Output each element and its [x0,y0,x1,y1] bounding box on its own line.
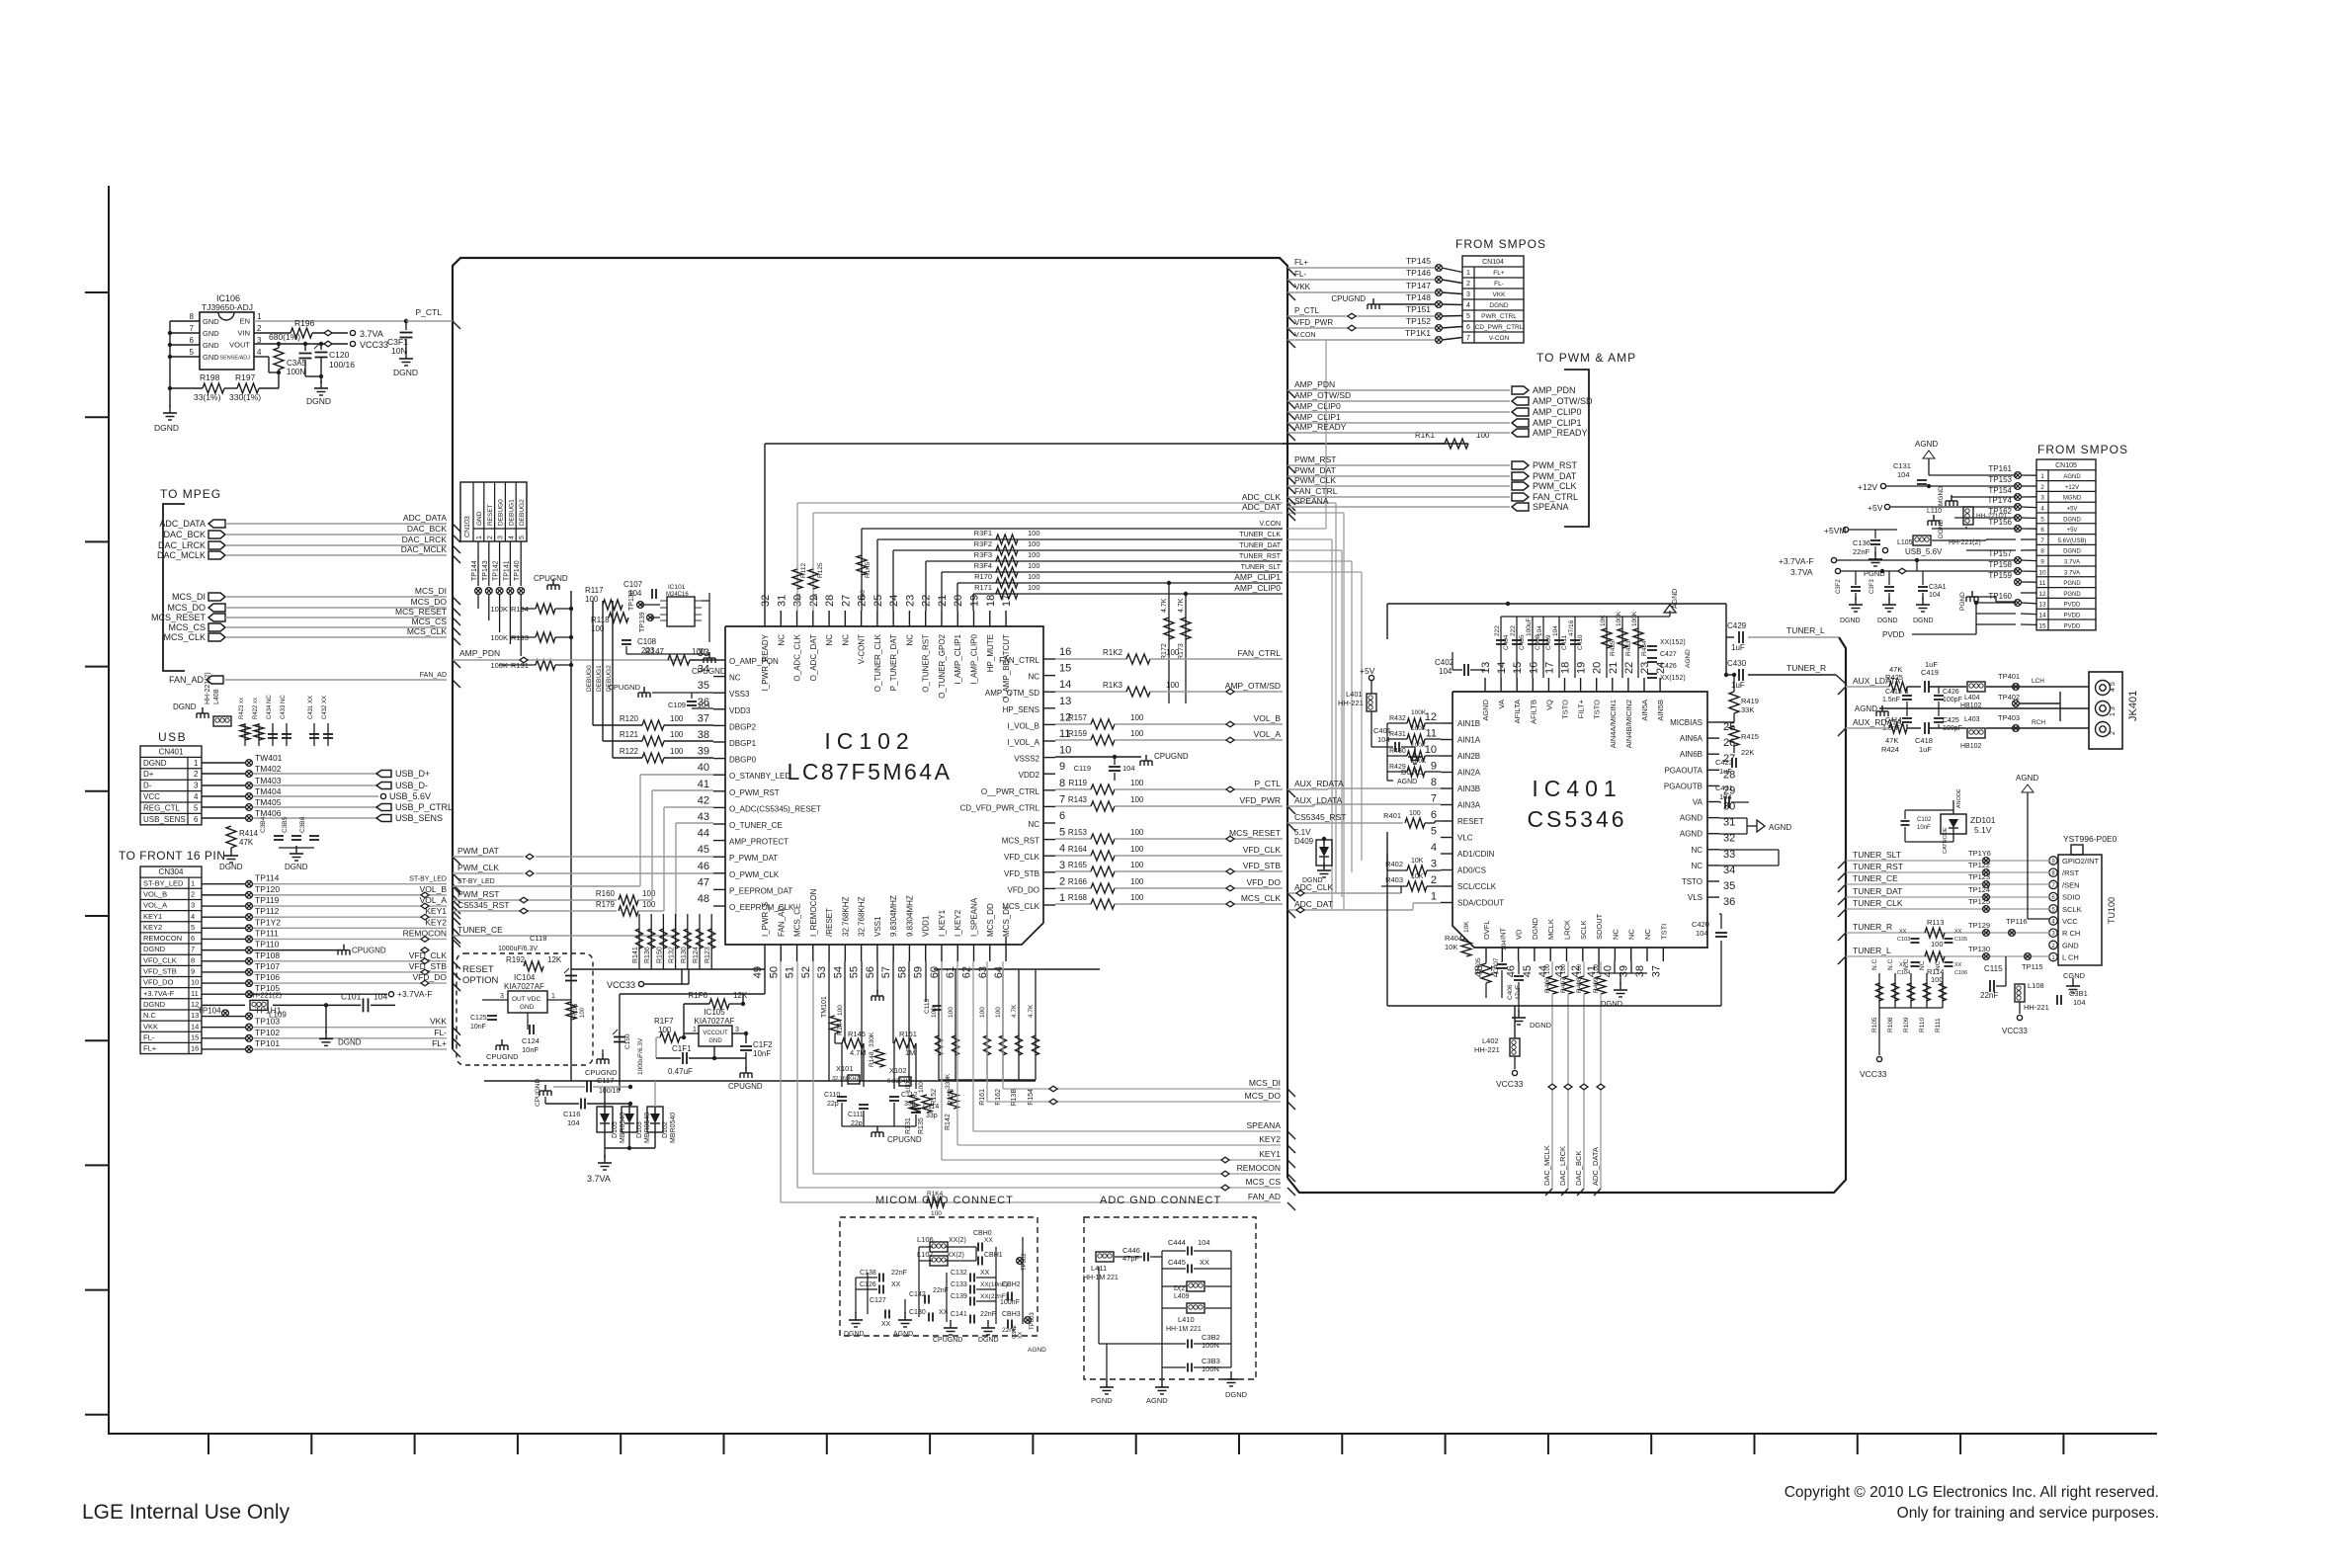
svg-text:TUNER_RST: TUNER_RST [1853,862,1903,871]
svg-text:XX: XX [1954,929,1962,935]
svg-text:4: 4 [1466,302,1470,309]
svg-text:23: 23 [904,595,916,607]
svg-text:PWM_RST: PWM_RST [1294,454,1337,464]
svg-text:CATHODE: CATHODE [1943,827,1949,854]
svg-text:CPUGND: CPUGND [887,1135,922,1144]
svg-text:5.1V: 5.1V [1974,825,1992,835]
svg-text:104: 104 [1536,625,1543,636]
svg-text:21: 21 [937,595,949,607]
svg-text:100: 100 [1166,648,1180,657]
svg-text:R430: R430 [1389,748,1406,755]
svg-text:100: 100 [918,1082,925,1093]
svg-text:100: 100 [948,1007,955,1018]
svg-text:42: 42 [698,794,709,806]
svg-text:4.7K: 4.7K [1028,1004,1035,1018]
IC102 bottom pins 49-64 [764,945,766,961]
USB caps R414 C3B4-6 [226,826,236,848]
resistors R112 R125 R1K5 [792,569,802,589]
svg-text:D102: D102 [662,1121,669,1138]
svg-text:VA: VA [1497,700,1506,708]
svg-text:R196: R196 [294,318,315,328]
wire VCC33 bus + pin49 rail [571,968,765,970]
svg-text:TSTO: TSTO [1561,700,1570,719]
svg-text:REMOCON: REMOCON [143,934,182,943]
svg-text:NC: NC [1028,673,1039,682]
svg-text:R414: R414 [239,829,259,838]
svg-text:11: 11 [191,989,199,998]
svg-text:1: 1 [257,312,262,321]
svg-text:I_KEY1: I_KEY1 [938,909,947,937]
svg-text:7: 7 [1431,793,1437,805]
svg-text:AMP_OTW/SD: AMP_OTW/SD [1294,390,1351,400]
svg-text:TP154: TP154 [1988,486,2012,495]
svg-text:SDA/CDOUT: SDA/CDOUT [1457,899,1504,908]
svg-text:100N: 100N [1202,1341,1219,1350]
svg-text:C132: C132 [951,1270,967,1277]
svg-text:R123: R123 [705,947,711,963]
svg-text:11: 11 [1426,728,1437,740]
svg-text:NC: NC [841,634,850,646]
svg-text:TSTO: TSTO [1682,877,1702,886]
svg-text:KEY1: KEY1 [143,912,162,921]
svg-text:100: 100 [1166,681,1180,690]
svg-text:10nF: 10nF [522,1045,540,1054]
svg-text:R422: R422 [253,704,259,719]
svg-text:C3B6: C3B6 [299,816,306,833]
svg-text:100K: 100K [490,605,508,614]
svg-text:REG_CTL: REG_CTL [143,803,180,812]
svg-text:TM406: TM406 [255,808,282,818]
svg-text:32: 32 [760,595,772,607]
svg-text:AMP_OTM/SD: AMP_OTM/SD [1225,681,1281,691]
svg-text:C426: C426 [1660,663,1677,670]
svg-text:VIN: VIN [237,329,250,338]
svg-text:MCS_CS: MCS_CS [412,617,448,626]
svg-text:USB_SENS: USB_SENS [143,815,186,824]
svg-text:22nF: 22nF [980,1311,996,1318]
svg-text:3: 3 [1466,291,1470,298]
svg-text:100: 100 [1931,940,1944,949]
svg-text:PWM_DAT: PWM_DAT [1294,465,1336,475]
svg-text:CPUGND: CPUGND [1154,752,1189,761]
svg-text:5: 5 [1466,313,1470,320]
svg-text:100N: 100N [287,368,305,376]
NC pins 33-34 stubs [1719,849,1779,851]
svg-text:DGND: DGND [1531,917,1539,940]
svg-text:14: 14 [1059,679,1071,691]
IC102 right signal wires [1055,658,1126,660]
svg-text:12: 12 [1425,711,1437,723]
svg-text:1M: 1M [905,1048,915,1057]
svg-text:TP115: TP115 [2022,962,2043,971]
svg-text:7: 7 [1059,793,1065,805]
svg-text:AMP_CLIP1: AMP_CLIP1 [1533,418,1582,428]
svg-text:I_SPEANA: I_SPEANA [970,897,979,937]
sheet border rulers [108,186,110,1435]
svg-text:IC105: IC105 [704,1008,725,1017]
svg-text:R407: R407 [1560,977,1567,993]
svg-text:IC104: IC104 [514,973,536,982]
svg-text:5.6V(USB): 5.6V(USB) [2058,538,2087,544]
svg-text:XX: XX [1018,1331,1024,1339]
svg-text:L408: L408 [213,689,220,704]
svg-text:P_CTL: P_CTL [1294,306,1319,315]
svg-text:AFILTA: AFILTA [1513,700,1522,723]
svg-text:GPIO2/INT: GPIO2/INT [2062,857,2100,866]
svg-text:xx: xx [239,698,245,703]
svg-text:NC: NC [1611,929,1619,940]
svg-text:100: 100 [1130,845,1144,854]
svg-text:32.768KHZ: 32.768KHZ [841,896,850,937]
svg-text:C119: C119 [1074,764,1091,773]
svg-text:AGND: AGND [1855,704,1877,713]
svg-text:2: 2 [487,536,494,539]
svg-text:FAN_CTRL: FAN_CTRL [1533,492,1578,502]
svg-text:ADC_CLK: ADC_CLK [1242,492,1282,502]
svg-text:PWM_CLK: PWM_CLK [457,863,499,872]
svg-text:1 3: 1 3 [2110,706,2117,716]
svg-text:TUNER_R: TUNER_R [1853,922,1892,932]
svg-text:DEBUG1: DEBUG1 [596,665,603,692]
svg-text:VDD3: VDD3 [729,706,751,715]
svg-text:R121: R121 [620,730,639,739]
svg-text:VCC: VCC [143,792,160,801]
svg-text:MCS_CS: MCS_CS [168,622,206,632]
svg-text:RCH: RCH [2032,719,2045,726]
svg-text:TM403: TM403 [255,776,282,785]
svg-text:1.5nF: 1.5nF [1882,697,1900,703]
svg-text:C406: C406 [1507,984,1514,1000]
svg-text:PGND: PGND [2063,581,2081,587]
svg-text:R125: R125 [817,562,824,578]
svg-text:104: 104 [1198,1238,1210,1247]
svg-text:100: 100 [642,900,656,909]
svg-text:2: 2 [1431,874,1437,886]
svg-text:R131: R131 [905,1117,912,1134]
svg-text:TP125: TP125 [1968,897,1990,906]
svg-text:16: 16 [191,1044,199,1053]
svg-text:TP104: TP104 [198,1006,221,1015]
svg-text:SCLK: SCLK [2062,905,2082,914]
svg-text:C410: C410 [1577,634,1584,650]
svg-text:5.1V: 5.1V [1294,828,1311,837]
svg-text:AMP_PDN: AMP_PDN [1533,385,1576,395]
connector CN103 [460,482,527,541]
svg-text:100: 100 [1130,861,1144,869]
svg-text:C432: C432 [322,704,328,719]
svg-text:55: 55 [849,966,861,978]
svg-text:4.7K: 4.7K [1011,1004,1018,1018]
svg-text:43: 43 [698,811,709,823]
svg-text:L CH: L CH [2062,953,2079,962]
svg-text:AUX_RDATA: AUX_RDATA [1853,717,1902,727]
svg-text:3: 3 [1431,859,1437,870]
svg-text:ADC_DATA: ADC_DATA [159,519,206,529]
svg-text:ADC GND CONNECT: ADC GND CONNECT [1100,1195,1221,1206]
svg-text:XX: XX [322,696,328,703]
svg-text:5: 5 [519,536,526,539]
svg-text:TUNER_CLK: TUNER_CLK [1853,898,1903,908]
svg-text:TP159: TP159 [1988,571,2012,580]
svg-text:AIN1A: AIN1A [1457,736,1481,745]
svg-text:100: 100 [1130,713,1144,722]
svg-text:100K: 100K [1411,725,1427,732]
svg-text:XX: XX [1899,962,1907,968]
svg-text:VDD1: VDD1 [922,915,931,937]
svg-text:R170: R170 [974,572,992,581]
svg-text:104: 104 [567,1118,580,1127]
svg-text:P_CTL: P_CTL [416,307,443,317]
wires ADC_CLK ADC_DAT R402 R403 [1287,892,1401,894]
svg-text:VCC33: VCC33 [1860,1069,1887,1079]
svg-text:TP1Y2: TP1Y2 [255,917,281,927]
svg-text:TP803: TP803 [1030,1312,1036,1330]
adc block outline [1287,637,1846,1193]
svg-text:TP142: TP142 [493,560,500,581]
svg-text:USB_D+: USB_D+ [395,769,430,779]
svg-text:VFD_CLK: VFD_CLK [409,950,448,960]
svg-text:VFD_DO: VFD_DO [413,972,448,982]
svg-text:MCS_RESET: MCS_RESET [151,613,207,622]
svg-text:D105: D105 [612,1121,619,1138]
svg-text:C110: C110 [824,1092,840,1099]
svg-text:MCS_RESET: MCS_RESET [395,607,447,617]
zener ZD101 [1941,814,1966,834]
svg-text:VOUT: VOUT [229,341,250,350]
svg-text:KEY2: KEY2 [425,917,447,927]
svg-text:DAC_LRCK: DAC_LRCK [1558,1146,1567,1186]
svg-text:100K: 100K [1616,611,1622,626]
VCC33 tap [638,981,643,986]
svg-text:O_STANBY_LED: O_STANBY_LED [729,772,790,781]
svg-text:R151: R151 [899,1030,917,1038]
svg-text:3.7VA: 3.7VA [360,329,383,339]
svg-text:AMP_CLIP0: AMP_CLIP0 [1294,401,1341,411]
svg-text:18: 18 [1560,662,1572,674]
svg-text:R164: R164 [1068,845,1088,854]
svg-text:100: 100 [1561,963,1567,974]
svg-text:10nF: 10nF [1917,825,1931,831]
IC102 left pins 33-48 [713,659,725,661]
svg-text:15: 15 [191,1032,199,1041]
svg-text:32.768KHZ: 32.768KHZ [832,1076,860,1082]
svg-text:AMP_OTM_SD: AMP_OTM_SD [985,689,1039,698]
svg-text:XX: XX [881,1321,891,1328]
svg-text:DBGP0: DBGP0 [729,756,757,765]
connector JK401 [2089,672,2122,749]
svg-text:12: 12 [2038,591,2046,598]
svg-text:41: 41 [698,779,709,790]
svg-text:MCLK: MCLK [1546,919,1555,940]
svg-text:MCS_DD: MCS_DD [986,903,995,937]
svg-text:CN304: CN304 [159,867,184,876]
svg-text:100: 100 [670,747,684,756]
resistors R3F1-R171 [996,535,1018,544]
capacitors C117 C116 [544,1085,546,1091]
svg-text:ST-BY_LED: ST-BY_LED [409,876,447,883]
svg-text:KEY2: KEY2 [143,923,162,932]
svg-text:100N: 100N [1202,1364,1219,1373]
svg-text:CBH3: CBH3 [1002,1311,1021,1318]
svg-text:TUNER_CE: TUNER_CE [457,925,503,935]
svg-text:XX: XX [308,696,314,703]
svg-text:ANODE: ANODE [1956,788,1962,808]
svg-text:/RESET: /RESET [825,908,834,937]
svg-text:VCCOUT: VCCOUT [703,1031,728,1036]
svg-text:VFD_STB: VFD_STB [1004,869,1039,878]
svg-text:AMP_READY: AMP_READY [1294,422,1347,432]
svg-text:C127: C127 [870,1297,886,1304]
svg-text:L409: L409 [1174,1293,1190,1300]
svg-text:R108: R108 [1887,1017,1894,1032]
svg-text:V-CON: V-CON [1489,335,1510,342]
svg-text:C401: C401 [1373,726,1391,735]
svg-text:6: 6 [1466,324,1470,331]
svg-text:VFD_CLK: VFD_CLK [1243,845,1282,855]
svg-text:R434: R434 [1641,640,1648,656]
svg-text:N.C: N.C [1871,959,1878,971]
svg-text:1000uF/6.3V: 1000uF/6.3V [498,946,538,952]
svg-text:2: 2 [194,770,199,779]
svg-text:TUNER_SLT: TUNER_SLT [1241,564,1282,571]
CN103 debug stubs TP140-TP144 [477,541,479,586]
svg-text:PWM_RST: PWM_RST [457,889,500,899]
svg-text:38: 38 [698,729,709,741]
svg-text:AIN4A/MICIN1: AIN4A/MICIN1 [1609,700,1618,748]
svg-text:7: 7 [190,324,195,333]
resistor bank R152-R154 [934,968,1100,970]
svg-text:Copyright © 2010 LG Electronic: Copyright © 2010 LG Electronics Inc. All… [1785,1484,2159,1501]
IC401 right pins 25-36 [1707,721,1719,723]
svg-text:5: 5 [1431,826,1437,838]
svg-text:SPEANA: SPEANA [1294,496,1329,506]
svg-text:CBH1: CBH1 [984,1252,1003,1259]
svg-text:TM405: TM405 [255,797,282,807]
svg-text:DGND: DGND [1225,1390,1248,1399]
svg-text:35: 35 [1723,880,1735,892]
svg-text:1uF: 1uF [1925,660,1938,669]
svg-text:+3.7VA-F: +3.7VA-F [1779,556,1814,566]
svg-text:3: 3 [735,1027,739,1033]
svg-text:100nF: 100nF [1000,1299,1020,1306]
svg-text:33: 33 [795,593,802,601]
svg-text:6: 6 [1059,810,1065,822]
svg-text:16: 16 [1528,662,1539,674]
svg-text:MCS_DO: MCS_DO [411,597,448,607]
capacitor C3F1 + DGND [405,321,407,330]
svg-text:33(1%): 33(1%) [194,392,221,402]
svg-text:SPEANA: SPEANA [1247,1120,1282,1130]
svg-text:VFD_DO: VFD_DO [1008,885,1039,894]
capacitor C1F2 + CPUGND [745,1033,747,1043]
svg-text:NC: NC [1691,862,1702,870]
svg-text:DAC_MCLK: DAC_MCLK [157,550,206,560]
svg-text:X102: X102 [889,1066,907,1075]
svg-text:FAN_CTRL: FAN_CTRL [1238,648,1282,658]
resistor R1F6 [684,1003,709,1005]
svg-text:VKK: VKK [430,1017,447,1027]
svg-text:AMP_PDN: AMP_PDN [459,648,500,658]
svg-text:3: 3 [191,901,195,910]
svg-text:AMP_READY: AMP_READY [1533,428,1588,438]
capacitor C120 + DGND [320,344,322,350]
svg-text:6: 6 [2040,527,2044,534]
svg-text:5: 5 [2040,516,2044,523]
svg-text:XX: XX [891,1281,901,1288]
resistor bank R105-R111 [1878,973,1880,1008]
svg-text:100: 100 [1931,975,1944,984]
svg-text:C117: C117 [597,1076,614,1085]
svg-text:MCS_CLK: MCS_CLK [163,632,206,642]
svg-text:DGND: DGND [154,423,179,433]
svg-text:AGND: AGND [1397,779,1417,785]
crystals X101 X102 + caps [842,1038,864,1048]
svg-text:I_VOL_B: I_VOL_B [1008,721,1039,730]
svg-text:FAN_AD: FAN_AD [1248,1192,1281,1201]
svg-text:D+: D+ [143,770,154,779]
svg-text:KIA7027AF: KIA7027AF [695,1017,735,1026]
svg-text:DGND: DGND [1877,618,1898,624]
svg-text:100: 100 [979,1007,986,1018]
svg-text:TO PWM & AMP: TO PWM & AMP [1536,351,1636,365]
svg-text:TP116: TP116 [2006,917,2028,926]
svg-text:DGND: DGND [338,1037,362,1046]
bottom wires MCS/KEY/FAN to edge [1002,961,1004,1089]
svg-text:9: 9 [191,967,195,976]
svg-text:MCS_RESET: MCS_RESET [1229,828,1281,838]
svg-text:AGND: AGND [1769,823,1791,832]
svg-text:RESET: RESET [487,504,494,526]
svg-text:CPUGND: CPUGND [1331,294,1366,303]
svg-text:7: 7 [1466,335,1470,342]
svg-text:TP120: TP120 [255,884,280,894]
svg-text:AIN3A: AIN3A [1457,801,1481,810]
svg-text:1000uF/6.3V: 1000uF/6.3V [637,1037,644,1075]
svg-text:TP152: TP152 [1406,316,1431,326]
svg-text:22nF: 22nF [1980,991,1998,1000]
svg-text:P_CTL: P_CTL [1255,779,1282,788]
svg-text:C120: C120 [329,350,350,360]
svg-text:47K: 47K [1885,736,1898,745]
svg-text:XX(152): XX(152) [1660,639,1686,646]
IC102 top pins 32-17 [764,611,766,626]
svg-text:C3B4: C3B4 [260,816,267,833]
svg-text:33p: 33p [926,1113,938,1119]
svg-text:VFD_CLK: VFD_CLK [143,955,177,964]
svg-text:AMP_CLIP1: AMP_CLIP1 [1234,572,1281,582]
svg-text:TO MPEG: TO MPEG [160,487,221,501]
svg-text:+3.7VA-F: +3.7VA-F [397,989,433,999]
svg-text:R435: R435 [1610,640,1617,656]
svg-text:104: 104 [1439,667,1453,676]
svg-text:SCLK: SCLK [1579,920,1588,940]
svg-text:45: 45 [698,844,709,856]
svg-text:MCS_CE: MCS_CE [793,904,802,937]
svg-text:10nF: 10nF [470,1024,486,1031]
svg-text:FL+: FL+ [143,1044,157,1053]
svg-text:+5V: +5V [1868,503,1883,513]
svg-text:XX(2): XX(2) [949,1237,966,1244]
NC pins 40-38 DGND [1598,961,1600,973]
svg-text:GND: GND [520,1004,535,1011]
svg-text:TUNER_SLT: TUNER_SLT [1853,850,1901,860]
svg-text:MCS_CS: MCS_CS [1246,1177,1282,1187]
svg-text:R161: R161 [979,1089,986,1106]
svg-text:15: 15 [2038,622,2046,629]
svg-text:13: 13 [2038,602,2046,609]
svg-text:VFD_DO: VFD_DO [143,978,174,987]
svg-text:C415: C415 [1885,689,1902,696]
